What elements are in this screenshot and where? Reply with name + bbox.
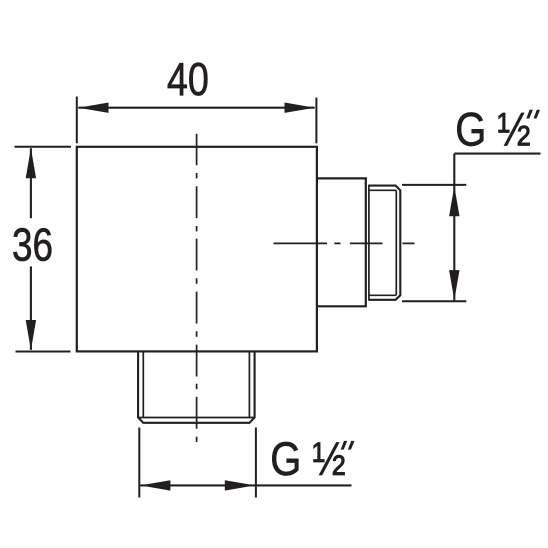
right port neck — [317, 178, 366, 306]
body outline (40x36 block) — [77, 147, 317, 352]
vertical centerline (dash-dot) — [196, 134, 198, 442]
right port dim: dimension line + leader — [454, 154, 540, 302]
bottom port thread root lines — [139, 351, 253, 417]
horizontal centerline (dash-dot) — [274, 242, 415, 244]
dim 36: extension lines — [15, 147, 72, 352]
svg-text:G ½: G ½ — [270, 433, 346, 486]
right port thread crest — [368, 186, 400, 300]
bottom dim: extension lines — [139, 428, 256, 498]
right port dim: arrowheads — [449, 186, 459, 216]
right port dim: extension lines — [402, 185, 466, 301]
bottom dim: dimension line + leader — [140, 484, 351, 486]
dim 36: arrowheads — [26, 148, 36, 178]
svg-text:G ½: G ½ — [455, 103, 531, 156]
dim 40: extension lines — [77, 97, 317, 144]
double prime bottom — [341, 441, 348, 450]
bottom port thread crest — [138, 351, 255, 422]
dim 40: dimension line — [78, 107, 314, 109]
svg-text:36: 36 — [12, 219, 53, 271]
dim 40: arrowheads — [78, 103, 108, 113]
right port thread root lines — [368, 186, 396, 300]
dim 36: dimension line — [30, 148, 32, 350]
bottom dim: arrowheads — [140, 480, 170, 490]
svg-text:40: 40 — [167, 53, 209, 105]
double prime top right — [526, 110, 533, 119]
